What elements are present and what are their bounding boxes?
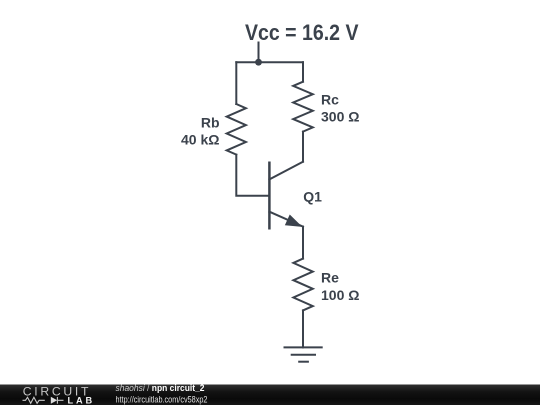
transistor Q1 emitter lead <box>269 212 303 227</box>
wire Vcc stub <box>258 43 260 63</box>
svg-text:40 kΩ: 40 kΩ <box>181 132 219 148</box>
svg-text:100 Ω: 100 Ω <box>321 287 359 303</box>
transistor Q1 emitter arrow <box>286 215 301 226</box>
resistor Rc <box>293 82 313 132</box>
svg-text:300 Ω: 300 Ω <box>321 109 359 125</box>
wire Rb top <box>235 62 237 104</box>
svg-text:LAB: LAB <box>68 395 96 405</box>
wire Re to ground <box>302 310 304 347</box>
node junction dot <box>255 59 262 66</box>
svg-text:Rc: Rc <box>321 92 339 108</box>
transistor Q1 collector lead <box>269 162 303 180</box>
svg-text:Vcc = 16.2 V: Vcc = 16.2 V <box>245 20 359 45</box>
transistor Q1 base bar <box>268 163 271 229</box>
svg-text:Re: Re <box>321 269 339 285</box>
resistor Re <box>293 259 312 311</box>
wire top rail <box>236 61 303 63</box>
wire emitter to Re <box>302 227 304 259</box>
svg-text:Rb: Rb <box>201 115 220 131</box>
wire Rc bottom to collector <box>302 132 304 162</box>
wire Rb bottom to base <box>236 155 269 196</box>
svg-text:Q1: Q1 <box>303 188 322 204</box>
footer bar <box>0 385 540 405</box>
resistor Rb <box>227 104 246 155</box>
ground <box>285 347 322 361</box>
logo CircuitLab <box>23 385 96 405</box>
svg-text:shaohsi / npn circuit_2: shaohsi / npn circuit_2 <box>116 383 205 393</box>
svg-text:http://circuitlab.com/cv58xp2: http://circuitlab.com/cv58xp2 <box>116 394 208 404</box>
wire Rc top <box>302 62 304 81</box>
